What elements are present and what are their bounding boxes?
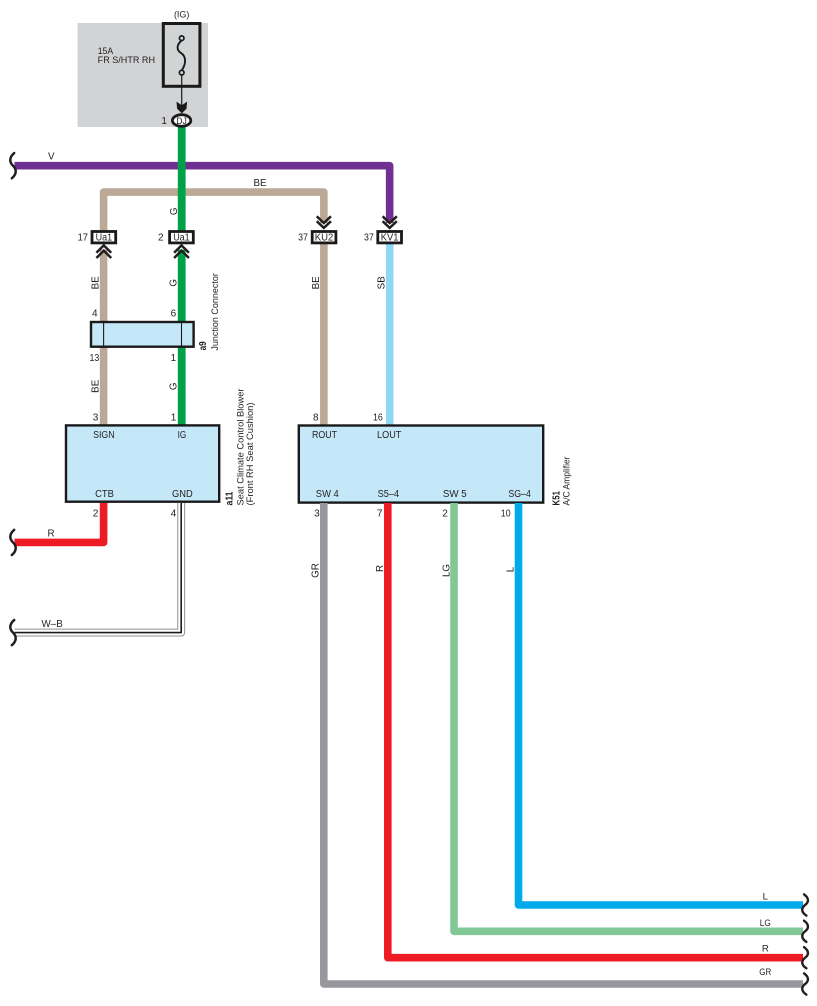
connector KU2 pin 37: [312, 232, 336, 243]
wire blue L from K51 SG-4: [519, 503, 804, 905]
wire W-B from a11 GND: [15, 503, 182, 633]
svg-text:BE: BE: [311, 276, 322, 290]
squiggle right end of GR wire: [802, 973, 808, 994]
svg-text:1: 1: [171, 353, 177, 364]
svg-text:Ua1: Ua1: [96, 232, 113, 243]
svg-text:4: 4: [171, 508, 177, 519]
wire green G from Ua1-2 to a11 IG: [178, 250, 186, 425]
svg-text:R: R: [48, 528, 55, 539]
fuse element S-curve: [178, 41, 185, 71]
svg-text:2: 2: [158, 232, 164, 243]
svg-text:a9: a9: [198, 341, 209, 350]
wire tan BE from Ua1-17 to a9: [100, 250, 108, 322]
svg-text:BE: BE: [254, 178, 268, 189]
svg-text:7: 7: [377, 508, 383, 519]
a9 cell divider left: [103, 321, 105, 348]
svg-text:CTB: CTB: [95, 489, 114, 500]
svg-text:G: G: [169, 279, 180, 287]
wire gray GR from K51 SW4: [324, 503, 803, 984]
svg-text:L: L: [505, 566, 516, 572]
svg-text:(IG): (IG): [174, 10, 190, 20]
squiggle right end of L wire: [802, 894, 808, 915]
fuse bottom terminal circle: [179, 70, 184, 75]
svg-text:SB: SB: [377, 276, 388, 290]
wire light-blue SB from KV1 to K51: [386, 244, 394, 425]
svg-text:ROUT: ROUT: [312, 430, 337, 441]
svg-text:3: 3: [314, 508, 320, 519]
fuse block gray background: [78, 23, 209, 127]
svg-text:a11: a11: [225, 491, 236, 505]
svg-text:BE: BE: [91, 379, 102, 393]
fuse top terminal circle: [179, 36, 184, 41]
connector KV1 pin 37: [378, 232, 402, 243]
wire purple V horizontal: [15, 166, 390, 223]
svg-text:2: 2: [442, 508, 448, 519]
svg-text:W–B: W–B: [42, 619, 64, 630]
svg-text:L: L: [763, 891, 769, 902]
svg-text:KV1: KV1: [381, 232, 399, 243]
svg-text:10: 10: [501, 508, 511, 519]
svg-text:6: 6: [171, 308, 177, 319]
squiggle left end of R wire: [10, 530, 15, 555]
svg-text:2: 2: [93, 508, 99, 519]
svg-text:R: R: [762, 943, 769, 954]
wire red R from K51 S5-4: [388, 503, 803, 958]
wire tan BE from a9 to a11: [100, 348, 108, 425]
wire light-green LG from K51 SW5: [454, 503, 803, 931]
svg-text:37: 37: [298, 232, 308, 243]
svg-text:GND: GND: [172, 489, 193, 500]
svg-text:FR S/HTR RH: FR S/HTR RH: [98, 55, 155, 65]
svg-text:3: 3: [93, 412, 99, 423]
squiggle right end of LG wire: [802, 921, 808, 942]
chevron up below Ua1-2: [174, 245, 189, 258]
svg-text:SW 4: SW 4: [316, 489, 339, 500]
a9 cell divider right: [181, 321, 183, 348]
wire red R from a11 CTB: [15, 503, 104, 542]
chevron up below Ua1-17: [96, 245, 111, 258]
svg-text:SW 5: SW 5: [443, 489, 467, 500]
svg-text:G: G: [169, 207, 180, 215]
svg-text:Junction Connector: Junction Connector: [210, 272, 221, 350]
connector Ua1 pin 2: [170, 232, 194, 243]
squiggle right end of R wire: [802, 947, 808, 968]
svg-text:LG: LG: [441, 564, 452, 577]
svg-text:G: G: [169, 382, 180, 390]
svg-text:KU2: KU2: [315, 232, 334, 243]
svg-text:S5–4: S5–4: [378, 489, 400, 500]
svg-text:8: 8: [313, 412, 319, 423]
wire green G from DJ to Ua1-2: [178, 122, 186, 231]
svg-text:A/C Amplifier: A/C Amplifier: [561, 456, 572, 506]
svg-text:17: 17: [78, 232, 89, 243]
svg-text:GR: GR: [310, 563, 321, 578]
DJ connector oval: [172, 115, 190, 127]
svg-text:4: 4: [92, 308, 98, 319]
svg-text:GR: GR: [759, 967, 771, 978]
wire from fuse to DJ: [181, 75, 183, 106]
svg-text:R: R: [375, 565, 386, 572]
svg-text:13: 13: [90, 353, 100, 364]
a11 Seat Climate Control Blower box: [66, 425, 219, 501]
svg-text:SIGN: SIGN: [93, 430, 115, 441]
chevron down above KU2: [317, 216, 331, 228]
svg-text:(Front RH Seat Cushion): (Front RH Seat Cushion): [245, 403, 256, 506]
squiggle left end of W-B wire: [10, 620, 15, 645]
svg-text:DJ: DJ: [176, 115, 187, 126]
wire tan BE horizontal with two drops: [104, 192, 324, 231]
squiggle left end of V wire: [10, 153, 15, 178]
wire tan BE from KU2 to K51: [320, 244, 328, 425]
svg-text:Ua1: Ua1: [173, 232, 190, 243]
svg-text:LOUT: LOUT: [377, 430, 401, 441]
svg-text:SG–4: SG–4: [508, 489, 531, 500]
fuse 15A FR S/HTR RH box: [163, 24, 200, 87]
svg-text:1: 1: [171, 412, 177, 423]
chevron down above KV1: [383, 216, 397, 228]
svg-text:16: 16: [373, 412, 383, 423]
svg-text:V: V: [48, 152, 55, 163]
junction connector a9 box: [91, 322, 194, 347]
solid arrow into DJ: [177, 102, 188, 114]
svg-text:37: 37: [364, 232, 374, 243]
svg-text:LG: LG: [760, 918, 771, 929]
svg-text:1: 1: [161, 116, 167, 127]
svg-text:IG: IG: [178, 430, 187, 441]
K51 A/C Amplifier box: [299, 426, 543, 503]
connector Ua1 pin 17: [92, 232, 116, 243]
svg-text:BE: BE: [91, 276, 102, 290]
